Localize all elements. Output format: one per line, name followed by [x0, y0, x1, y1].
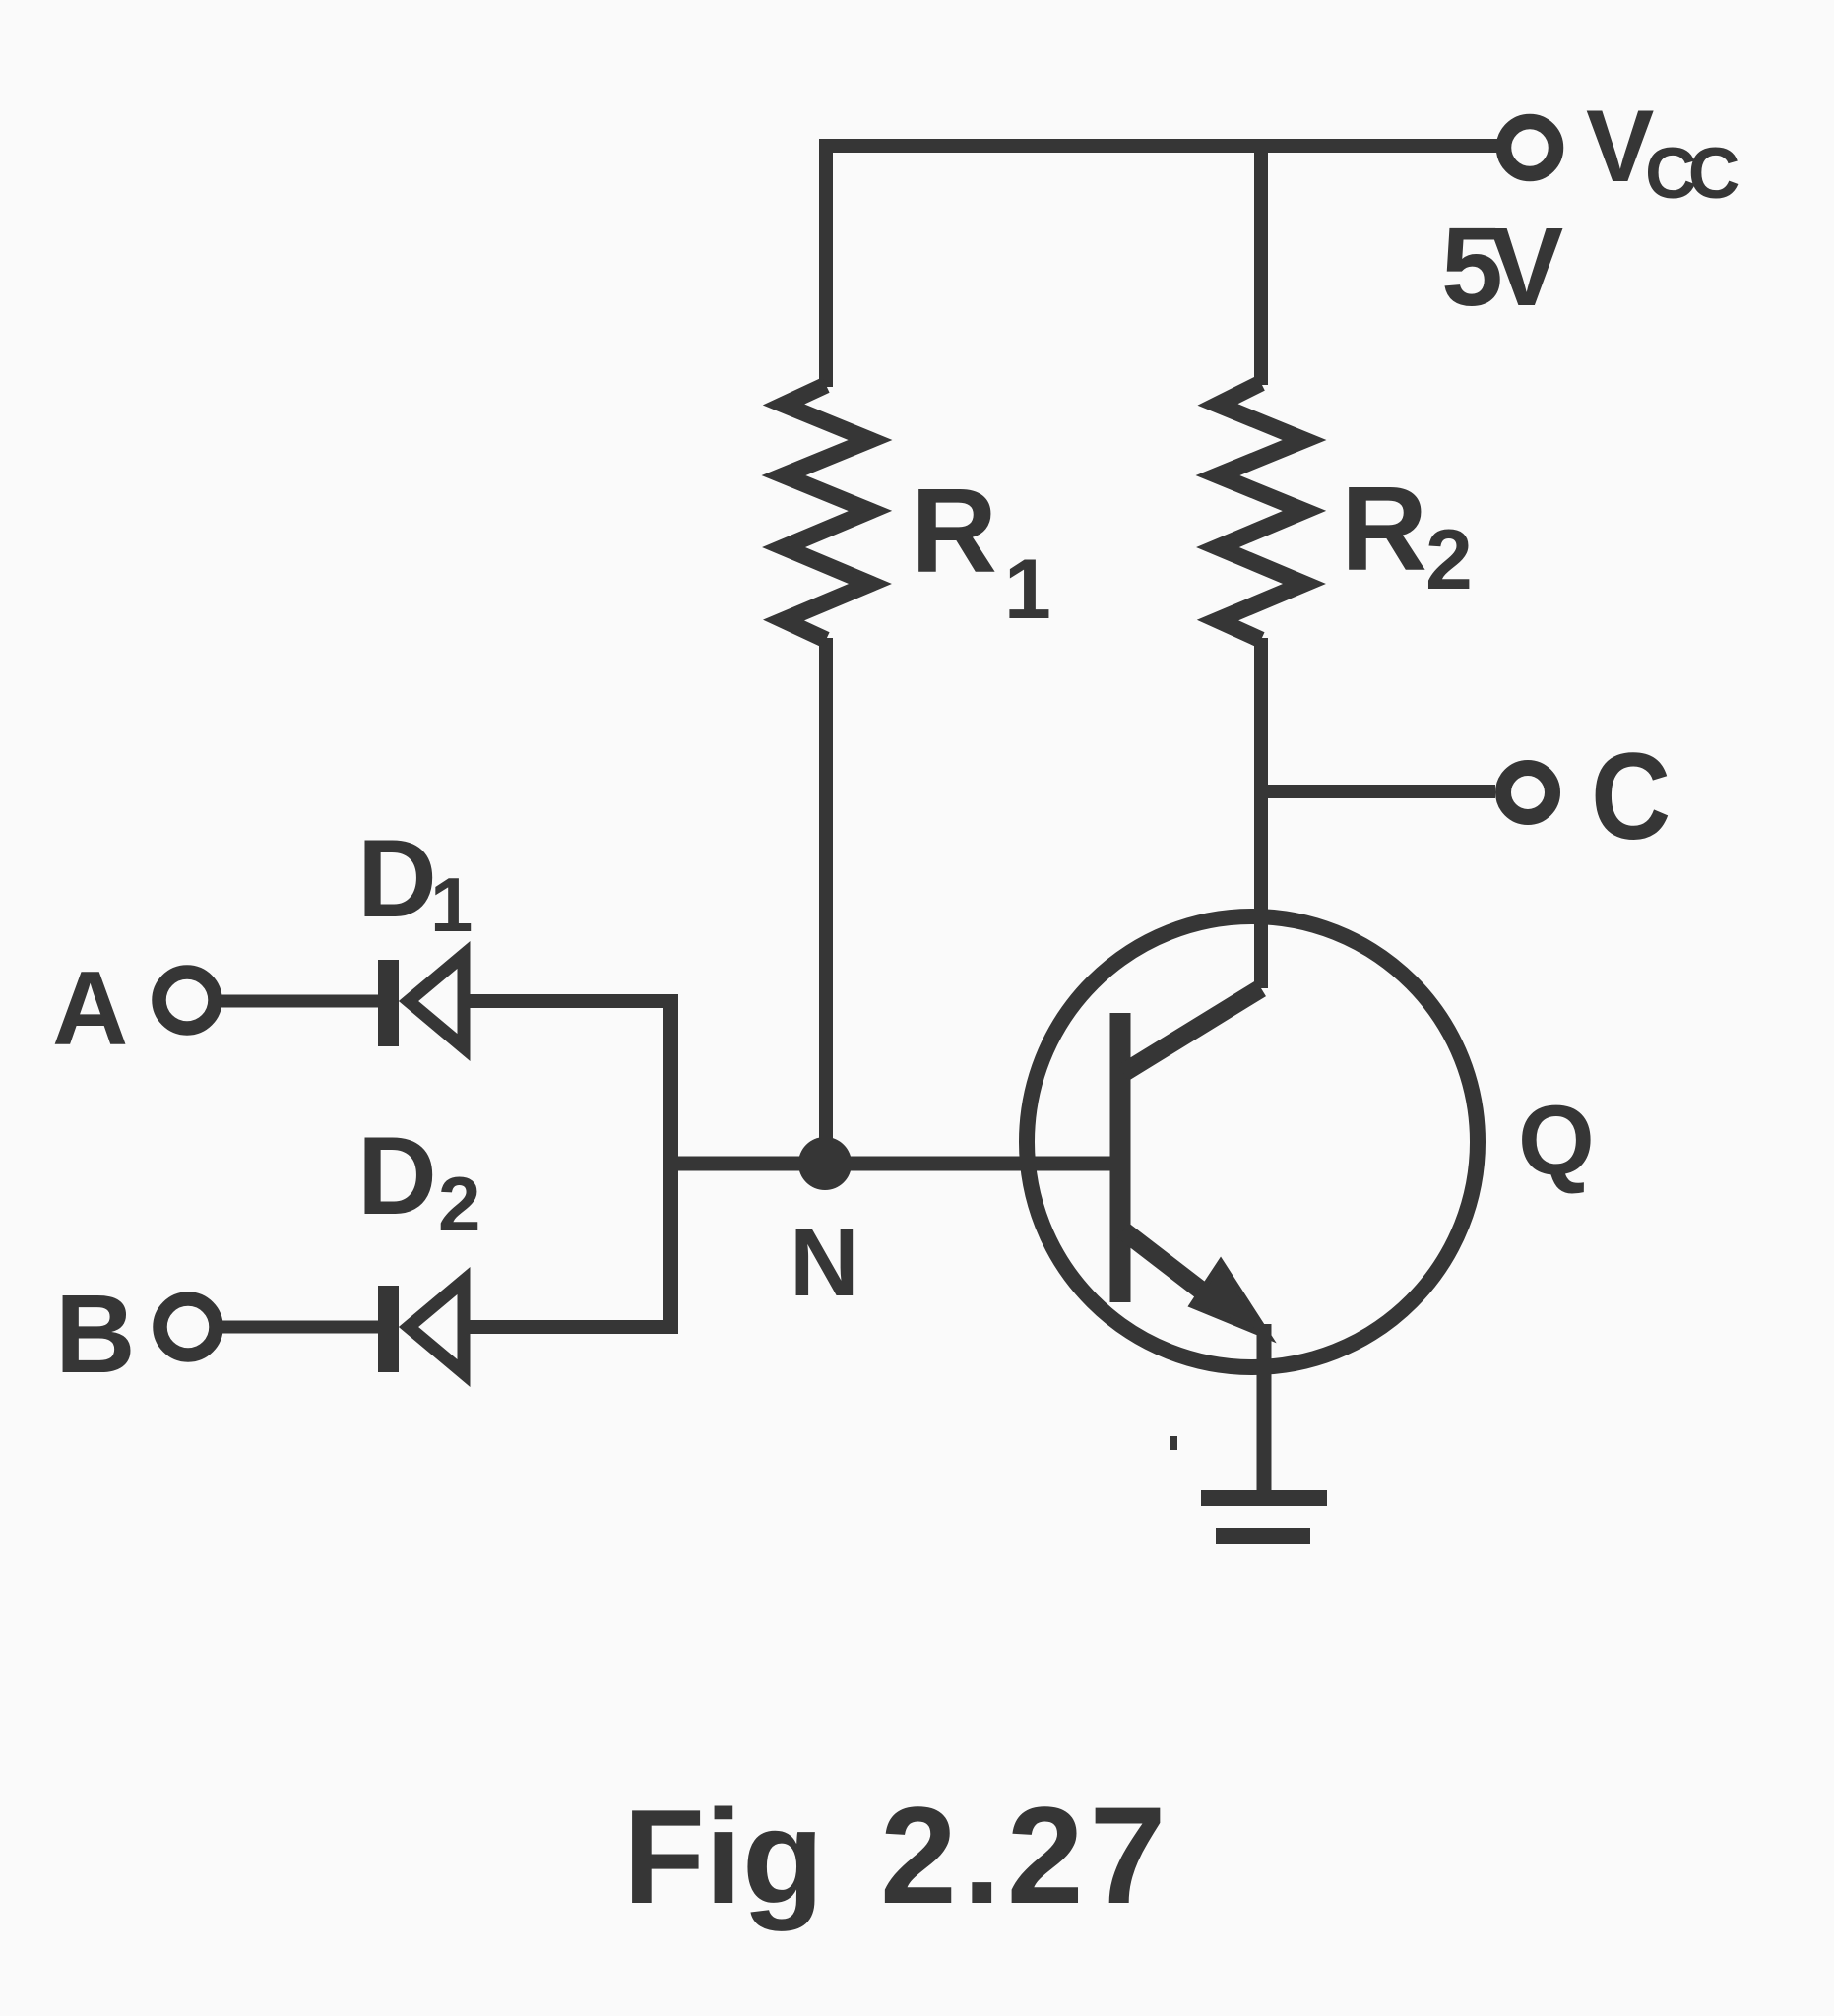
- node N junction dot: [798, 1137, 852, 1190]
- diode D1 cathode bar: [378, 960, 399, 1046]
- svg-text:Q: Q: [1518, 1086, 1595, 1196]
- transistor Q circle: [1027, 916, 1478, 1367]
- wire A to D1: [221, 995, 384, 1008]
- wire vertical diode bus: [663, 994, 678, 1334]
- transistor Q emitter stroke: [1123, 1230, 1226, 1309]
- ground bar short: [1216, 1528, 1310, 1543]
- svg-text:R: R: [911, 464, 997, 598]
- svg-text:R: R: [1341, 462, 1427, 596]
- svg-text:CC: CC: [1645, 134, 1739, 214]
- wire R2 top lead: [1254, 139, 1268, 385]
- stray tick mark: [1170, 1436, 1177, 1450]
- transistor Q emitter arrowhead: [1192, 1262, 1269, 1337]
- svg-text:2.27: 2.27: [880, 1778, 1171, 1932]
- svg-text:V: V: [1586, 90, 1654, 204]
- resistor R2: [1218, 383, 1304, 640]
- wire R1 bottom lead to node N: [819, 638, 833, 1164]
- diode D2 triangle: [409, 1281, 464, 1373]
- resistor R1: [784, 385, 870, 640]
- transistor Q base bar: [1110, 1013, 1131, 1302]
- svg-text:Fig: Fig: [623, 1782, 824, 1931]
- wire bus to node N: [670, 1157, 825, 1171]
- svg-text:N: N: [790, 1208, 859, 1316]
- wire D2 to junction: [464, 1320, 678, 1334]
- transistor Q collector stroke: [1123, 988, 1261, 1073]
- svg-text:1: 1: [430, 861, 473, 948]
- power terminal Vcc: [1504, 122, 1556, 174]
- wire emitter to ground: [1257, 1324, 1272, 1495]
- svg-text:D: D: [357, 817, 437, 940]
- svg-text:D: D: [357, 1114, 437, 1237]
- svg-text:A: A: [52, 949, 128, 1067]
- svg-text:5V: 5V: [1441, 205, 1563, 329]
- wire to terminal C: [1261, 785, 1495, 798]
- svg-text:1: 1: [1004, 542, 1051, 637]
- wire B to D2: [221, 1321, 384, 1334]
- svg-text:B: B: [55, 1272, 136, 1396]
- ground bar long: [1201, 1490, 1327, 1506]
- input terminal B: [160, 1299, 217, 1355]
- diode D1 triangle: [409, 955, 464, 1047]
- wire node N to base: [825, 1157, 1112, 1171]
- svg-text:C: C: [1591, 728, 1671, 866]
- svg-text:2: 2: [438, 1161, 480, 1247]
- terminal C: [1503, 768, 1552, 817]
- wire R2 bottom lead / collector branch: [1254, 638, 1268, 988]
- svg-text:2: 2: [1425, 513, 1473, 607]
- input terminal A: [159, 973, 216, 1029]
- wire top rail Vcc: [826, 139, 1497, 153]
- wire R1 top lead: [819, 139, 833, 387]
- wire D1 to junction: [464, 994, 678, 1008]
- diode D2 cathode bar: [378, 1286, 399, 1372]
